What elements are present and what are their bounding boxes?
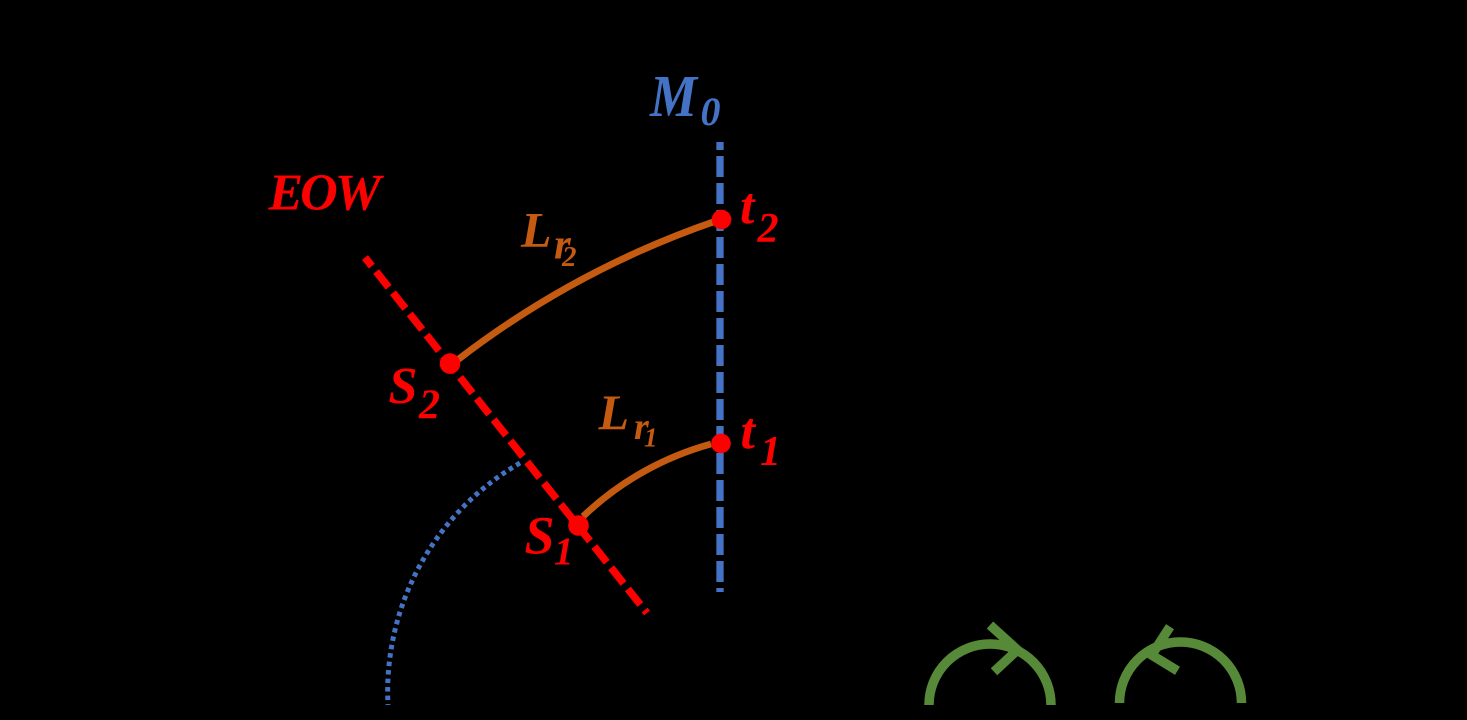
node S1 label <box>525 506 574 574</box>
node t1 label <box>741 403 782 475</box>
wire wave-crest arc (blue dotted) <box>388 463 520 705</box>
node S1 point <box>568 515 589 536</box>
svg-text:L: L <box>520 202 552 258</box>
node t1 point <box>711 434 731 454</box>
node Lr2 label <box>520 202 577 274</box>
node t2 label <box>740 178 779 252</box>
svg-text:0: 0 <box>701 89 721 134</box>
node S2 point <box>440 353 461 374</box>
wire M0 mid-line (blue dashed vertical) <box>716 142 723 592</box>
svg-text:L: L <box>598 384 630 440</box>
svg-text:t: t <box>741 403 757 460</box>
node S2 label <box>389 358 441 429</box>
svg-text:EOW: EOW <box>268 165 385 222</box>
clockwise rotation arrow (green, left) <box>929 625 1051 705</box>
node t2 point <box>712 210 732 230</box>
wire Lr2 ray path (orange curve) <box>458 221 717 360</box>
wire Lr1 ray path (orange curve) <box>583 444 711 517</box>
node EOW label <box>268 165 385 222</box>
svg-text:2: 2 <box>757 206 779 252</box>
svg-text:2: 2 <box>418 383 440 429</box>
svg-text:M: M <box>649 63 699 129</box>
svg-text:1: 1 <box>644 423 658 453</box>
svg-text:t: t <box>740 178 756 235</box>
counter-clockwise rotation arrow (green, right) <box>1120 627 1242 703</box>
wire EOW edge-of-wave line (red dashed diagonal) <box>365 258 647 614</box>
svg-text:2: 2 <box>561 241 577 273</box>
svg-text:S: S <box>525 506 555 566</box>
node M0 label <box>649 63 720 134</box>
node Lr1 label <box>598 384 658 453</box>
svg-text:1: 1 <box>554 530 574 573</box>
svg-text:1: 1 <box>760 429 781 475</box>
svg-text:S: S <box>389 358 418 415</box>
